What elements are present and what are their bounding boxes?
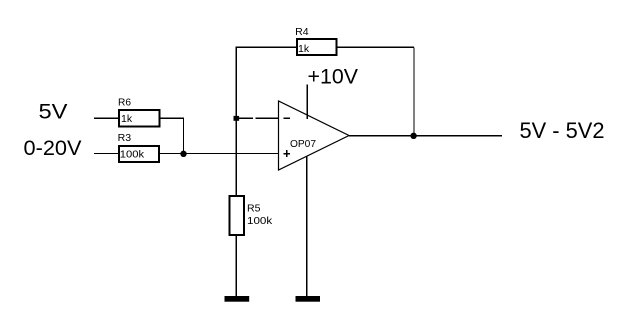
wire R6 output right then down to junction [161,118,184,153]
wire op-amp output [349,135,502,137]
wire inverting input segment a [236,117,253,119]
svg-text:1k: 1k [298,43,310,55]
pin minus sign [284,117,291,119]
wire op-amp V- pin down to ground [306,156,308,296]
op-amp U1 OP07 triangle [279,101,350,170]
svg-text:1k: 1k [121,113,133,125]
resistor R6 [118,97,160,127]
resistor R5 [230,196,274,235]
svg-text:100k: 100k [247,215,273,227]
node junction dot inverting input [234,116,240,121]
svg-text:R4: R4 [295,26,309,38]
svg-text:0-20V: 0-20V [24,137,82,160]
wire inverting input segment b [256,117,279,119]
svg-text:5V - 5V2: 5V - 5V2 [520,118,605,143]
svg-text:+10V: +10V [308,66,359,89]
ground bar under R5 [225,296,250,302]
wire feedback right vertical [413,47,415,136]
pin plus sign [283,153,290,155]
wire feedback top left horizontal [236,46,297,48]
wire 5V lead to R6 [94,117,119,119]
node junction dot R6/R3 [180,151,186,157]
ground bar under op-amp V- [296,296,321,302]
svg-text:100k: 100k [120,149,145,161]
wire R5 bottom to ground [235,235,237,296]
svg-text:R6: R6 [118,97,131,109]
wire feedback left vertical down to R5 [235,47,237,196]
svg-text:R5: R5 [247,202,261,214]
resistor R4 [295,26,336,55]
resistor R3 [118,132,159,162]
wire 0-20V lead to R3 [94,153,119,155]
svg-text:5V: 5V [39,101,68,124]
wire +10V supply down to op-amp top [306,85,308,120]
wire R3 output to op-amp plus input [160,153,279,155]
node junction dot output/feedback [410,133,416,139]
svg-text:OP07: OP07 [290,138,316,150]
svg-text:R3: R3 [118,132,132,144]
wire feedback top right horizontal [337,46,415,48]
